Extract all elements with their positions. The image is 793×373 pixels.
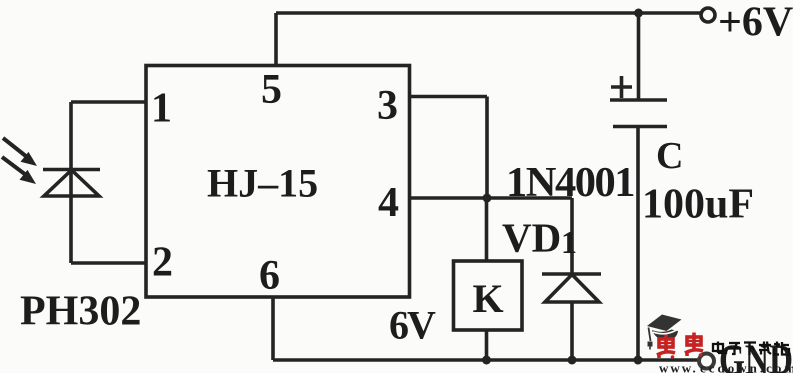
svg-text:VD: VD	[502, 215, 561, 261]
svg-text:1N4001: 1N4001	[506, 159, 634, 206]
wire bottom ground rail	[273, 358, 698, 362]
svg-text:1: 1	[151, 86, 172, 132]
wire pin2	[71, 261, 146, 265]
wire pin3 down to pin4	[485, 97, 489, 199]
light arrow 2 into photodiode	[2, 157, 36, 184]
svg-text:4: 4	[378, 180, 399, 226]
svg-text:HJ–15: HJ–15	[207, 161, 318, 206]
capacitor C bottom plate	[613, 125, 667, 129]
wire photodiode top	[69, 102, 73, 171]
svg-text:+6V: +6V	[718, 0, 793, 46]
photodiode PH302 triangle	[44, 170, 99, 196]
svg-text:2: 2	[152, 240, 173, 286]
xia	[744, 341, 756, 343]
wire photodiode bottom	[69, 170, 73, 263]
junction dot diode VD1 / rail	[568, 356, 577, 365]
svg-text:C: C	[656, 135, 683, 177]
svg-text:3: 3	[377, 83, 398, 129]
IC U1 HJ-15 box	[146, 66, 410, 298]
svg-text:K: K	[473, 276, 504, 321]
svg-text:ccdown.com: ccdown.com	[700, 361, 793, 373]
svg-text:6V: 6V	[389, 303, 436, 348]
junction dot pin3/pin4	[483, 194, 492, 203]
wire pin4	[410, 196, 572, 200]
wire pin3 horizontal	[410, 95, 487, 99]
junction dot top rail / capacitor	[634, 9, 643, 18]
wire capacitor top	[637, 13, 641, 100]
wire pin5 to top rail	[274, 13, 278, 66]
diode VD1 triangle	[545, 275, 599, 303]
svg-text:PH302: PH302	[20, 289, 141, 335]
wire pin1	[71, 100, 146, 104]
watermark red character chong 2	[685, 333, 703, 357]
relay K box	[454, 261, 523, 330]
svg-text:1: 1	[561, 224, 577, 260]
dian	[713, 344, 723, 351]
diode VD1 cathode bar	[542, 272, 601, 276]
wire top rail +6V	[276, 11, 700, 15]
svg-text:100uF: 100uF	[642, 182, 754, 228]
terminal circle GND	[699, 354, 714, 369]
watermark red character chong 1	[657, 335, 675, 359]
wire junction to relay K	[485, 198, 489, 261]
zhan	[776, 342, 778, 348]
svg-text:www.: www.	[659, 361, 698, 373]
zi	[729, 342, 740, 344]
capacitor C plus sign	[611, 85, 632, 89]
watermark text dianzi xiazaizhan	[713, 342, 789, 356]
wire relay K to ground rail	[485, 330, 489, 360]
wire capacitor bottom	[636, 127, 640, 361]
junction dot capacitor / rail	[634, 356, 643, 365]
wire diode VD1 top	[570, 198, 574, 274]
svg-text:5: 5	[261, 67, 282, 113]
watermark mortarboard cap	[647, 315, 682, 350]
wire pin6 down	[271, 297, 275, 360]
wire diode VD1 bottom	[570, 302, 574, 360]
terminal circle +6V	[701, 8, 715, 22]
svg-text:6: 6	[259, 253, 280, 299]
light arrow 1 into photodiode	[3, 138, 37, 166]
photodiode PH302 cathode bar	[43, 168, 100, 172]
zai	[759, 344, 771, 346]
capacitor C top plate	[610, 98, 667, 102]
junction dot relay K / rail	[482, 356, 491, 365]
